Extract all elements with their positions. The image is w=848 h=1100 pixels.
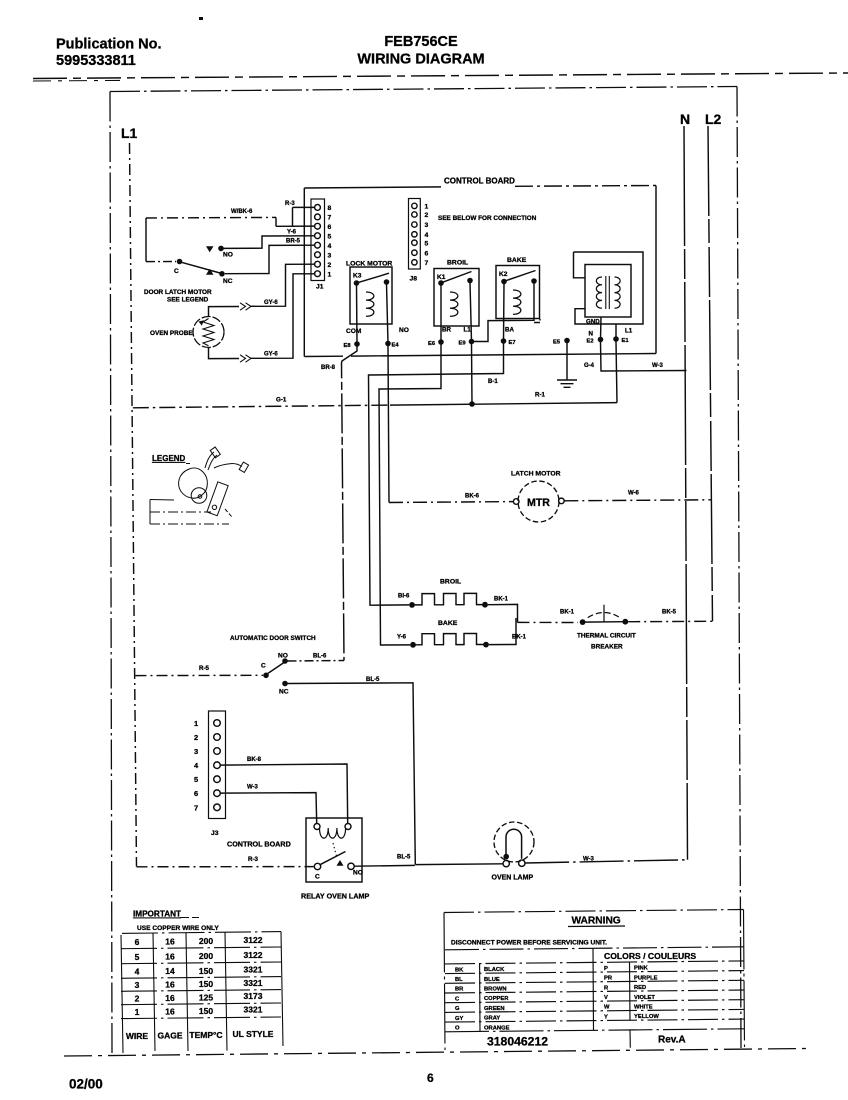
svg-text:8: 8 bbox=[328, 205, 332, 212]
svg-text:6: 6 bbox=[194, 789, 198, 798]
wire BL-6 NO up to E8 wire bbox=[288, 660, 345, 663]
CONTROL_BOARD bbox=[144, 177, 687, 661]
wire bbox=[629, 1029, 631, 1047]
svg-text:6: 6 bbox=[427, 1071, 434, 1085]
junction dot bbox=[467, 278, 473, 284]
junction dot bbox=[613, 336, 619, 342]
junction dot bbox=[531, 278, 537, 284]
stray mark top bbox=[199, 17, 203, 20]
svg-text:16: 16 bbox=[165, 980, 175, 990]
wire bbox=[304, 355, 343, 357]
svg-text:BR-5: BR-5 bbox=[286, 239, 301, 245]
wire bbox=[444, 910, 744, 913]
svg-text:PR: PR bbox=[604, 976, 613, 982]
svg-text:K3: K3 bbox=[353, 273, 362, 280]
wire bbox=[566, 343, 568, 380]
junction dot bbox=[410, 642, 416, 648]
wire bbox=[655, 186, 657, 354]
terminal circle bbox=[214, 790, 221, 797]
junction dot bbox=[438, 339, 444, 345]
terminal E6 bbox=[440, 285, 442, 342]
wire BL-5 from NC to relay NO / oven lamp bbox=[288, 683, 416, 865]
svg-text:C: C bbox=[455, 996, 460, 1002]
wire bbox=[445, 947, 744, 950]
wire bbox=[513, 290, 521, 314]
svg-text:BROIL: BROIL bbox=[440, 579, 461, 586]
svg-text:J1: J1 bbox=[316, 284, 324, 291]
svg-text:Y-6: Y-6 bbox=[287, 230, 297, 236]
svg-text:MTR: MTR bbox=[527, 497, 550, 509]
wire bbox=[518, 621, 579, 623]
junction dot bbox=[409, 602, 415, 608]
wire bbox=[121, 962, 281, 964]
wire bbox=[413, 634, 486, 645]
svg-text:WARNING: WARNING bbox=[572, 916, 621, 927]
wire bbox=[304, 187, 441, 188]
svg-text:K1: K1 bbox=[437, 274, 446, 281]
L2 rail wire bbox=[708, 126, 713, 621]
wire bbox=[240, 355, 251, 362]
terminal circle bbox=[315, 242, 321, 248]
svg-text:318046212: 318046212 bbox=[487, 1035, 548, 1049]
svg-text:V: V bbox=[604, 995, 608, 1001]
wire bbox=[445, 1019, 744, 1022]
junction dot bbox=[598, 337, 604, 343]
svg-text:L1: L1 bbox=[464, 327, 472, 334]
wire bbox=[592, 948, 595, 1030]
wire bbox=[443, 272, 472, 283]
svg-text:1: 1 bbox=[194, 719, 198, 728]
terminal circle bbox=[412, 260, 417, 265]
mounting bracket lines bbox=[150, 499, 174, 502]
wire bbox=[450, 292, 458, 316]
svg-text:USE COPPER WIRE ONLY: USE COPPER WIRE ONLY bbox=[137, 925, 219, 932]
core bbox=[606, 276, 610, 309]
latch motor bbox=[389, 471, 712, 523]
TABLES bbox=[121, 910, 745, 1054]
svg-text:DOOR LATCH MOTOR: DOOR LATCH MOTOR bbox=[144, 289, 212, 296]
terminal circle bbox=[494, 822, 534, 862]
wire bbox=[150, 523, 229, 525]
wire bbox=[225, 509, 232, 517]
svg-text:COPPER: COPPER bbox=[484, 996, 509, 1002]
junction dot bbox=[483, 642, 489, 648]
wire G-1 / R-1 long line from L1 rail to E1 bbox=[133, 405, 390, 408]
wire BR-8 from E8 down to auto door switch NO bbox=[321, 347, 357, 661]
svg-text:16: 16 bbox=[165, 1006, 175, 1016]
terminal circle bbox=[214, 720, 221, 727]
svg-text:1: 1 bbox=[328, 271, 332, 278]
svg-text:BAKE: BAKE bbox=[507, 257, 527, 264]
svg-text:SEE LEGEND: SEE LEGEND bbox=[167, 297, 209, 304]
wire BK-6 bbox=[389, 501, 513, 504]
contact NO bbox=[218, 246, 224, 252]
svg-text:E4: E4 bbox=[392, 343, 400, 349]
svg-text:L1: L1 bbox=[625, 328, 633, 335]
color codes bbox=[455, 966, 659, 1032]
wire bbox=[351, 354, 656, 357]
svg-text:3321: 3321 bbox=[244, 978, 263, 988]
terminal circle bbox=[214, 748, 221, 755]
svg-text:UL STYLE: UL STYLE bbox=[233, 1029, 274, 1039]
terminal circle bbox=[191, 488, 207, 504]
door latch motor switch bbox=[144, 201, 315, 304]
connector J1 body bbox=[311, 199, 325, 281]
wire bbox=[506, 829, 522, 859]
terminal circle bbox=[345, 824, 351, 830]
relay oven lamp bbox=[301, 818, 415, 901]
secondary winding bbox=[615, 277, 621, 308]
terminal E5 bbox=[564, 338, 570, 344]
primary winding bbox=[596, 277, 602, 308]
svg-text:WIRE: WIRE bbox=[126, 1031, 149, 1041]
junction dot bbox=[263, 673, 269, 679]
automatic door switch bbox=[230, 635, 415, 865]
wire bbox=[121, 1017, 281, 1019]
terminal E1 bbox=[615, 324, 617, 339]
svg-text:BREAKER: BREAKER bbox=[591, 644, 623, 651]
svg-text:C: C bbox=[315, 874, 320, 881]
wire bbox=[206, 269, 214, 275]
svg-text:BK-1: BK-1 bbox=[560, 610, 575, 616]
top separator secondary dash bbox=[33, 79, 120, 82]
wire bbox=[628, 620, 712, 622]
wire bbox=[146, 261, 176, 263]
svg-text:2: 2 bbox=[194, 733, 198, 742]
terminal circle bbox=[513, 499, 519, 505]
terminal circle bbox=[315, 261, 321, 267]
relay K1 BROIL bbox=[428, 260, 479, 348]
svg-text:W-3: W-3 bbox=[247, 785, 259, 791]
svg-text:GY-6: GY-6 bbox=[264, 352, 278, 358]
svg-text:3122: 3122 bbox=[244, 935, 263, 945]
connector J8 bbox=[409, 199, 429, 283]
svg-text:K2: K2 bbox=[499, 271, 508, 278]
wire R-1 solid section bbox=[390, 403, 617, 406]
wire bbox=[153, 933, 155, 1051]
grid bbox=[122, 932, 281, 934]
connector J3 bbox=[194, 711, 348, 849]
wire bbox=[225, 932, 227, 1050]
relay oven lamp box bbox=[306, 818, 362, 882]
svg-text:VIOLET: VIOLET bbox=[634, 995, 655, 1001]
svg-text:7: 7 bbox=[194, 803, 198, 812]
svg-text:200: 200 bbox=[199, 936, 213, 946]
svg-text:BL-6: BL-6 bbox=[313, 654, 327, 660]
wire bbox=[214, 464, 232, 469]
legend latch lever sketch bbox=[207, 482, 228, 516]
svg-text:3: 3 bbox=[328, 252, 332, 259]
svg-text:NO: NO bbox=[353, 870, 363, 877]
terminal circle bbox=[412, 222, 417, 227]
harness wires bbox=[205, 452, 214, 468]
svg-text:16: 16 bbox=[165, 937, 175, 947]
relay K3 LOCK MOTOR bbox=[344, 261, 409, 350]
wire R-3 to J1 pin 8 bbox=[293, 206, 315, 208]
svg-text:J3: J3 bbox=[211, 830, 219, 837]
wire bbox=[412, 593, 485, 605]
svg-text:J8: J8 bbox=[410, 276, 418, 283]
svg-text:4: 4 bbox=[194, 761, 199, 770]
wire R-3 from L1 rail to relay oven lamp C bbox=[137, 866, 314, 868]
wire bbox=[583, 621, 626, 623]
relay K3 box bbox=[350, 267, 392, 324]
terminal circle bbox=[315, 223, 321, 229]
ground symbol at E5 bbox=[557, 343, 595, 387]
terminal circle bbox=[315, 214, 321, 220]
svg-text:OVEN PROBE: OVEN PROBE bbox=[150, 330, 193, 337]
svg-text:W/BK-6: W/BK-6 bbox=[231, 209, 253, 215]
wire bbox=[744, 910, 745, 1048]
wire bbox=[150, 511, 211, 513]
svg-text:3: 3 bbox=[135, 980, 140, 990]
svg-text:3321: 3321 bbox=[244, 1005, 263, 1015]
svg-text:SEE BELOW FOR CONNECTION: SEE BELOW FOR CONNECTION bbox=[438, 215, 537, 222]
svg-text:R-3: R-3 bbox=[285, 201, 295, 207]
svg-text:C: C bbox=[261, 663, 266, 670]
svg-text:W-3: W-3 bbox=[652, 363, 664, 369]
wire bbox=[292, 207, 294, 226]
svg-text:200: 200 bbox=[199, 951, 213, 961]
color table grid bbox=[445, 961, 744, 964]
wire gauge table bbox=[121, 910, 283, 1054]
wire W-3 J3-6 to relay coil bbox=[221, 793, 317, 824]
wire bbox=[206, 246, 214, 252]
svg-text:BR: BR bbox=[455, 987, 464, 993]
svg-text:COLORS / COULEURS: COLORS / COULEURS bbox=[604, 951, 696, 961]
svg-text:NC: NC bbox=[223, 278, 233, 285]
svg-text:LEGEND: LEGEND bbox=[152, 454, 186, 463]
svg-text:BAKE: BAKE bbox=[438, 620, 458, 627]
svg-text:BK-5: BK-5 bbox=[662, 610, 677, 616]
wire bbox=[506, 271, 536, 281]
wire bbox=[199, 320, 205, 325]
wire bbox=[568, 925, 625, 928]
svg-text:IMPORTANT: IMPORTANT bbox=[133, 910, 181, 919]
thermal circuit breaker bbox=[518, 605, 713, 651]
junction dot bbox=[501, 279, 507, 285]
wire bbox=[342, 347, 358, 661]
wire from E7 to broil element bbox=[369, 344, 504, 606]
terminal circle bbox=[315, 252, 321, 258]
junction dot bbox=[482, 602, 488, 608]
switch bbox=[314, 863, 320, 869]
svg-text:3321: 3321 bbox=[244, 964, 263, 974]
wire bbox=[275, 217, 277, 226]
svg-text:BK-1: BK-1 bbox=[512, 635, 527, 641]
svg-text:2: 2 bbox=[328, 262, 332, 269]
wire bbox=[603, 605, 605, 623]
junction dot bbox=[282, 658, 288, 664]
svg-text:C: C bbox=[174, 268, 179, 275]
wire bbox=[588, 612, 620, 617]
wire bbox=[515, 185, 656, 188]
svg-text:BL-5: BL-5 bbox=[397, 855, 411, 861]
svg-text:1: 1 bbox=[135, 1007, 140, 1017]
svg-text:W: W bbox=[604, 1005, 610, 1011]
svg-text:BR-8: BR-8 bbox=[321, 365, 336, 371]
wire bbox=[629, 962, 632, 1021]
wire bbox=[186, 933, 188, 1051]
svg-text:BL-5: BL-5 bbox=[366, 677, 380, 683]
border top bbox=[110, 87, 737, 92]
broil element bbox=[398, 579, 518, 623]
terminal E7 bbox=[503, 284, 506, 342]
svg-text:2: 2 bbox=[135, 993, 140, 1003]
junction dot bbox=[503, 854, 509, 860]
junction dot bbox=[282, 681, 288, 687]
svg-text:5: 5 bbox=[425, 240, 429, 247]
wire bbox=[320, 852, 346, 865]
wire bbox=[358, 273, 389, 282]
svg-text:CONTROL BOARD: CONTROL BOARD bbox=[444, 177, 515, 186]
wire Y-6 NO to J1 pin 5 bbox=[224, 236, 315, 249]
svg-text:BK-8: BK-8 bbox=[247, 757, 262, 763]
wire E2 to N rail (W-3) bbox=[601, 342, 687, 371]
svg-text:E6: E6 bbox=[428, 341, 436, 347]
wire bbox=[250, 264, 315, 306]
border right bbox=[737, 87, 741, 1049]
wire bbox=[574, 252, 586, 278]
svg-text:LATCH MOTOR: LATCH MOTOR bbox=[511, 471, 561, 478]
svg-text:E9: E9 bbox=[459, 341, 467, 347]
coil loops bbox=[320, 828, 346, 838]
wire BK-6 from E4 down to latch motor bbox=[388, 346, 389, 503]
svg-text:BI-6: BI-6 bbox=[398, 594, 410, 600]
wire W-3 lamp to N rail bbox=[525, 860, 687, 863]
svg-text:TEMP°C: TEMP°C bbox=[189, 1030, 222, 1040]
wire from E6 to bake element bbox=[379, 345, 441, 646]
svg-text:NO: NO bbox=[223, 252, 233, 259]
wire bbox=[240, 303, 251, 310]
svg-text:150: 150 bbox=[199, 979, 213, 989]
transformer bbox=[553, 252, 643, 346]
junction E9 to G-1/R-1 line bbox=[469, 401, 475, 407]
junction dot bbox=[469, 339, 475, 345]
svg-text:BA: BA bbox=[505, 327, 514, 334]
wire bbox=[232, 464, 242, 467]
terminal E9 bbox=[470, 283, 472, 342]
wire bbox=[203, 319, 214, 346]
wire GY-6 probe top to J1 pin 2 bbox=[209, 307, 240, 317]
svg-text:ORANGE: ORANGE bbox=[484, 1025, 510, 1031]
svg-text:R: R bbox=[604, 985, 609, 991]
terminal circle bbox=[412, 212, 417, 217]
terminal circle bbox=[214, 734, 221, 741]
wire E9 down to R-1 junction bbox=[471, 344, 474, 404]
svg-text:R-3: R-3 bbox=[248, 856, 259, 863]
blade C to NO bbox=[267, 663, 284, 675]
wire K2 to transformer primary stub bbox=[534, 317, 540, 323]
svg-text:3: 3 bbox=[194, 747, 198, 756]
wire BR-5 NC to J1 pin 4 bbox=[225, 245, 315, 274]
svg-text:W-3: W-3 bbox=[583, 857, 595, 863]
wire bbox=[445, 1000, 744, 1003]
svg-text:3173: 3173 bbox=[244, 991, 263, 1001]
svg-text:5: 5 bbox=[194, 775, 198, 784]
terminal circle bbox=[212, 504, 218, 510]
svg-text:L1: L1 bbox=[121, 125, 138, 141]
junction dot bbox=[580, 619, 586, 625]
relay K2 BAKE bbox=[474, 257, 540, 346]
svg-text:YELLOW: YELLOW bbox=[634, 1014, 659, 1020]
svg-text:BK-1: BK-1 bbox=[494, 597, 509, 603]
terminal circle bbox=[412, 240, 417, 245]
svg-text:RELAY OVEN LAMP: RELAY OVEN LAMP bbox=[301, 892, 369, 901]
svg-text:BROIL: BROIL bbox=[447, 260, 468, 267]
svg-text:Y: Y bbox=[604, 1014, 608, 1020]
control board box bbox=[303, 188, 305, 357]
svg-text:BR: BR bbox=[442, 327, 451, 334]
terminal circle bbox=[559, 498, 565, 504]
svg-text:4: 4 bbox=[328, 243, 332, 250]
bake element bbox=[397, 618, 527, 648]
svg-text:N: N bbox=[680, 111, 690, 127]
svg-text:14: 14 bbox=[165, 966, 175, 976]
svg-text:DISCONNECT POWER BEFORE SERVIC: DISCONNECT POWER BEFORE SERVICING UNIT. bbox=[451, 940, 607, 947]
svg-text:GREEN: GREEN bbox=[484, 1006, 505, 1012]
svg-text:6: 6 bbox=[425, 250, 429, 257]
svg-text:E5: E5 bbox=[553, 340, 561, 346]
wire bbox=[208, 455, 217, 470]
svg-text:7: 7 bbox=[328, 215, 332, 222]
svg-text:4: 4 bbox=[135, 967, 140, 977]
svg-text:BK: BK bbox=[455, 967, 464, 973]
svg-text:BK-6: BK-6 bbox=[465, 494, 480, 500]
svg-text:GY-6: GY-6 bbox=[264, 300, 278, 306]
wire BK-8 J3-4 to relay coil bbox=[221, 764, 348, 824]
terminal circle bbox=[348, 863, 354, 869]
svg-text:P: P bbox=[604, 966, 608, 972]
wire bbox=[149, 500, 151, 525]
terminal circle bbox=[412, 203, 417, 208]
legend sketch bbox=[150, 447, 249, 524]
svg-text:5: 5 bbox=[328, 233, 332, 240]
svg-text:PURPLE: PURPLE bbox=[634, 975, 658, 981]
svg-text:E8: E8 bbox=[344, 343, 352, 349]
wire bbox=[186, 463, 190, 465]
oven probe bbox=[150, 264, 315, 362]
RAILS bbox=[121, 111, 722, 867]
terminal circle bbox=[193, 317, 224, 348]
wire bbox=[574, 252, 644, 324]
svg-text:R-5: R-5 bbox=[199, 665, 210, 672]
wire BL-5 to lamp bbox=[415, 863, 503, 866]
terminal E4 bbox=[387, 284, 389, 344]
svg-text:G-1: G-1 bbox=[276, 397, 287, 404]
wire bbox=[445, 1009, 744, 1012]
wire bbox=[121, 947, 281, 949]
connector J1 bbox=[311, 199, 332, 291]
terminal circle bbox=[214, 776, 221, 783]
svg-text:G-4: G-4 bbox=[584, 363, 595, 369]
svg-text:COM: COM bbox=[346, 328, 362, 335]
wire bbox=[557, 380, 577, 387]
terminal circle bbox=[214, 804, 221, 811]
connector J8 body bbox=[409, 199, 421, 270]
terminal circle bbox=[198, 495, 202, 499]
svg-text:PINK: PINK bbox=[634, 966, 649, 972]
wire GY-6 probe bottom to J1 pin 1 bbox=[209, 348, 240, 359]
svg-text:3: 3 bbox=[425, 222, 429, 229]
wire K2 right to E9 jog bbox=[474, 284, 534, 342]
svg-text:R-1: R-1 bbox=[535, 392, 546, 399]
wire bbox=[445, 1029, 744, 1032]
svg-text:E2: E2 bbox=[587, 339, 594, 345]
svg-text:6: 6 bbox=[328, 224, 332, 231]
svg-text:RED: RED bbox=[634, 985, 646, 991]
wire bbox=[445, 971, 744, 974]
